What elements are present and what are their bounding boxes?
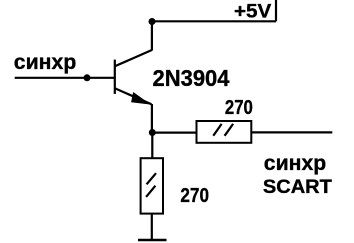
ground <box>138 239 167 241</box>
svg-text:синхр: синхр <box>264 152 326 175</box>
wire emitter node to R2 <box>151 133 153 159</box>
wire collector vertical <box>151 21 153 50</box>
transistor Q1 collector diagonal <box>115 50 152 66</box>
wire R1 to output <box>251 131 332 133</box>
transistor Q1 2N3904 base bar <box>114 60 116 94</box>
svg-text:270: 270 <box>180 184 209 207</box>
wire R2 to ground <box>151 214 153 240</box>
svg-text:+5V: +5V <box>234 1 272 22</box>
wire +5V rail horizontal <box>152 20 276 22</box>
wire emitter node to R1 <box>152 132 196 134</box>
transistor Q1 emitter diagonal <box>115 88 152 104</box>
junction input wire <box>84 74 91 81</box>
resistor R2 270 body <box>141 158 163 213</box>
svg-text:синхр: синхр <box>14 51 76 74</box>
svg-text:270: 270 <box>225 97 253 119</box>
svg-text:SCART: SCART <box>263 177 332 198</box>
wire base input <box>15 77 115 79</box>
wire emitter vertical <box>151 104 153 130</box>
junction emitter node <box>149 129 156 136</box>
svg-text:2N3904: 2N3904 <box>153 65 230 91</box>
resistor R1 270 body <box>197 121 252 143</box>
junction collector to +5V rail <box>149 18 156 25</box>
wire +5V rail vertical <box>275 0 277 21</box>
transistor Q1 emitter arrow <box>131 92 151 105</box>
